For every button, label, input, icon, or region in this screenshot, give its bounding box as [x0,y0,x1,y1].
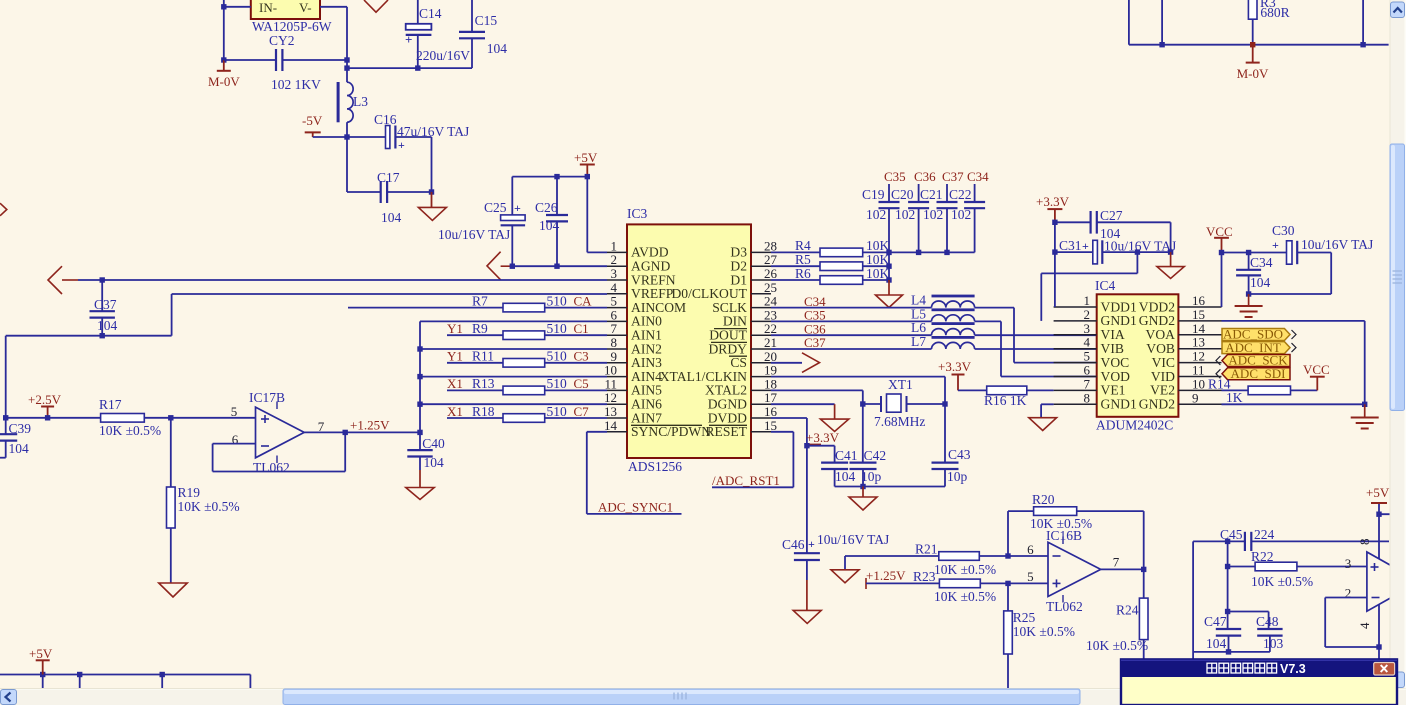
svg-text:12: 12 [1192,349,1205,364]
svg-text:R17: R17 [99,397,122,412]
svg-text:6: 6 [232,432,239,447]
svg-text:19: 19 [764,363,777,378]
svg-text:102: 102 [951,207,971,222]
svg-text:L4: L4 [911,293,926,308]
svg-text:R6: R6 [795,266,811,281]
svg-text:Y1: Y1 [447,321,463,336]
svg-text:R23: R23 [913,569,936,584]
svg-text:5: 5 [611,294,618,309]
svg-text:GND2: GND2 [1139,397,1175,412]
svg-text:IC16B: IC16B [1046,528,1082,543]
svg-text:+3.3V: +3.3V [1036,194,1070,209]
svg-text:CS: CS [730,355,747,370]
svg-text:ADUM2402C: ADUM2402C [1096,418,1173,433]
svg-text:R5: R5 [795,252,811,267]
svg-text:104: 104 [97,318,118,333]
svg-text:C15: C15 [475,13,498,28]
svg-text:4: 4 [1357,622,1372,629]
svg-text:C37: C37 [942,169,964,184]
svg-text:C35: C35 [884,169,906,184]
svg-text:C36: C36 [804,321,826,336]
svg-text:RESET: RESET [705,424,747,439]
svg-text:VDD1: VDD1 [1101,299,1137,314]
svg-text:10K ±0.5%: 10K ±0.5% [934,589,996,604]
svg-text:6: 6 [611,307,618,322]
svg-text:7.68MHz: 7.68MHz [874,414,925,429]
svg-text:8: 8 [1084,390,1091,405]
svg-text:R22: R22 [1251,549,1274,564]
svg-text:C19: C19 [862,187,885,202]
svg-text:10p: 10p [947,469,968,484]
svg-text:12: 12 [604,390,617,405]
svg-text:X1: X1 [447,404,463,419]
svg-text:DVDD: DVDD [708,410,747,425]
svg-text:16: 16 [1192,293,1206,308]
svg-text:XTAL1/CLKIN: XTAL1/CLKIN [660,369,747,384]
svg-text:L3: L3 [353,94,368,109]
svg-text:10u/16V TAJ: 10u/16V TAJ [1301,237,1373,252]
svg-text:104: 104 [381,210,402,225]
svg-text:C31: C31 [1059,238,1082,253]
svg-text:VE2: VE2 [1150,383,1175,398]
svg-text:DRDY: DRDY [708,341,747,356]
svg-text:6: 6 [1027,542,1034,557]
svg-text:M-0V: M-0V [1237,66,1269,81]
svg-text:10K: 10K [866,238,890,253]
svg-text:5: 5 [1027,569,1034,584]
svg-text:22: 22 [764,321,777,336]
svg-text:C34: C34 [1250,255,1273,270]
svg-text:104: 104 [1206,636,1227,651]
svg-text:15: 15 [764,418,777,433]
svg-text:M-0V: M-0V [208,74,240,89]
svg-text:510: 510 [547,349,568,364]
svg-text:28: 28 [764,238,777,253]
svg-text:C27: C27 [1100,208,1123,223]
svg-text:R21: R21 [915,542,938,557]
svg-text:3: 3 [611,266,618,281]
svg-text:XT1: XT1 [888,377,913,392]
svg-text:/ADC_RST1: /ADC_RST1 [712,473,780,488]
svg-text:C1: C1 [574,321,589,336]
svg-text:14: 14 [604,418,618,433]
svg-text:VOA: VOA [1146,327,1176,342]
svg-text:D2: D2 [730,259,747,274]
svg-text:VCC: VCC [1303,362,1330,377]
svg-text:104: 104 [1250,275,1271,290]
svg-text:7: 7 [1084,376,1091,391]
svg-text:10u/16V TAJ: 10u/16V TAJ [817,532,889,547]
svg-text:VID: VID [1151,369,1175,384]
svg-text:GND1: GND1 [1101,313,1137,328]
svg-text:IC17B: IC17B [249,390,285,405]
svg-text:R20: R20 [1032,492,1055,507]
svg-text:+: + [398,138,405,152]
svg-text:10K ±0.5%: 10K ±0.5% [1086,638,1148,653]
svg-text:510: 510 [547,404,568,419]
svg-text:+5V: +5V [1366,485,1390,500]
svg-text:C16: C16 [374,112,397,127]
svg-text:+1.25V: +1.25V [350,418,390,433]
svg-text:10K ±0.5%: 10K ±0.5% [1013,624,1075,639]
svg-text:10K ±0.5%: 10K ±0.5% [99,423,161,438]
svg-text:680R: 680R [1260,5,1289,20]
svg-text:+3.3V: +3.3V [938,359,972,374]
svg-text:4: 4 [611,280,618,295]
svg-text:1K: 1K [1226,390,1243,405]
svg-text:2: 2 [1084,307,1091,322]
svg-text:10: 10 [604,363,617,378]
svg-text:102: 102 [923,207,943,222]
svg-text:C34: C34 [804,294,826,309]
svg-text:10u/16V TAJ: 10u/16V TAJ [438,227,510,242]
svg-text:DOUT: DOUT [709,328,747,343]
svg-text:220u/16V: 220u/16V [416,48,470,63]
svg-text:14: 14 [1192,321,1206,336]
svg-text:XTAL2: XTAL2 [705,383,747,398]
svg-text:7: 7 [611,321,618,336]
svg-text:VCC: VCC [1206,224,1233,239]
svg-text:17: 17 [764,390,778,405]
svg-text:C30: C30 [1272,223,1295,238]
svg-text:AINCOM: AINCOM [631,300,686,315]
svg-text:2: 2 [611,252,618,267]
svg-text:AIN5: AIN5 [631,383,662,398]
svg-text:GND1: GND1 [1101,397,1137,412]
svg-text:+5V: +5V [574,150,598,165]
svg-text:C40: C40 [422,436,445,451]
svg-text:AIN7: AIN7 [631,410,662,425]
svg-text:R25: R25 [1013,610,1036,625]
svg-text:IN-: IN- [259,0,277,15]
svg-text:C47: C47 [1204,614,1227,629]
svg-text:C17: C17 [377,170,400,185]
svg-text:510: 510 [547,293,568,308]
svg-text:L6: L6 [911,320,926,335]
svg-text:IC4: IC4 [1095,278,1116,293]
svg-text:R9: R9 [472,321,488,336]
svg-text:104: 104 [835,469,856,484]
svg-text:ADC_SDI: ADC_SDI [1231,366,1286,381]
svg-text:TL062: TL062 [253,460,290,475]
svg-text:+: + [808,537,815,551]
svg-text:103: 103 [1263,636,1284,651]
svg-text:25: 25 [764,280,777,295]
svg-text:C3: C3 [574,349,589,364]
svg-text:5: 5 [1084,349,1091,364]
svg-text:18: 18 [764,376,777,391]
svg-text:AIN2: AIN2 [631,341,662,356]
svg-text:DIN: DIN [723,314,747,329]
svg-text:C42: C42 [864,448,887,463]
svg-text:+: + [1272,238,1279,252]
svg-text:SCLK: SCLK [712,300,747,315]
svg-text:R19: R19 [178,485,201,500]
svg-text:X1: X1 [447,376,463,391]
svg-text:C43: C43 [948,447,971,462]
svg-text:10K: 10K [866,252,890,267]
svg-text:VE1: VE1 [1101,383,1126,398]
svg-text:7: 7 [1113,555,1120,570]
svg-text:102 1KV: 102 1KV [271,77,321,92]
svg-text:5: 5 [231,404,238,419]
svg-text:10K: 10K [866,266,890,281]
svg-text:104: 104 [539,218,560,233]
svg-text:+2.5V: +2.5V [28,392,62,407]
svg-text:C7: C7 [574,404,590,419]
svg-text:1: 1 [611,238,618,253]
svg-text:L5: L5 [911,306,926,321]
svg-text:R4: R4 [795,238,811,253]
svg-text:C25: C25 [484,200,507,215]
svg-text:+3.3V: +3.3V [806,430,840,445]
svg-text:102: 102 [866,207,886,222]
svg-text:AVDD: AVDD [631,245,669,260]
svg-text:C14: C14 [419,6,442,21]
svg-text:VDD2: VDD2 [1139,299,1175,314]
svg-text:3: 3 [1084,321,1091,336]
svg-text:C39: C39 [9,421,32,436]
svg-text:R13: R13 [472,376,495,391]
svg-text:C5: C5 [574,376,589,391]
svg-text:10K ±0.5%: 10K ±0.5% [178,499,240,514]
svg-text:C48: C48 [1256,614,1279,629]
svg-text:AGND: AGND [631,259,670,274]
svg-text:10u/16V TAJ: 10u/16V TAJ [1104,239,1176,254]
svg-text:R24: R24 [1116,603,1139,618]
svg-text:C35: C35 [804,308,826,323]
svg-text:+: + [514,201,521,215]
svg-text:11: 11 [1192,363,1205,378]
svg-text:4: 4 [1084,335,1091,350]
svg-text:R11: R11 [472,349,494,364]
svg-text:224: 224 [1254,527,1275,542]
svg-text:104: 104 [424,455,445,470]
svg-text:AIN0: AIN0 [631,314,662,329]
svg-text:9: 9 [611,349,618,364]
svg-text:15: 15 [1192,307,1205,322]
svg-text:DGND: DGND [708,397,747,412]
svg-text:24: 24 [764,294,778,309]
svg-text:TL062: TL062 [1046,599,1083,614]
svg-text:16: 16 [764,404,778,419]
svg-text:VOC: VOC [1101,355,1130,370]
svg-text:27: 27 [764,252,778,267]
svg-text:R14: R14 [1208,377,1231,392]
svg-text:10p: 10p [861,469,882,484]
svg-text:1: 1 [1084,293,1091,308]
svg-text:V7.3: V7.3 [1280,662,1306,676]
svg-text:C37: C37 [804,335,826,350]
svg-text:C20: C20 [891,187,914,202]
svg-text:CY2: CY2 [269,33,295,48]
svg-text:VIA: VIA [1101,327,1125,342]
svg-text:IC3: IC3 [627,206,648,221]
svg-text:Y1: Y1 [447,349,463,364]
svg-text:21: 21 [764,335,777,350]
svg-text:47u/16V TAJ: 47u/16V TAJ [397,124,469,139]
svg-text:R18: R18 [472,404,495,419]
svg-text:GND2: GND2 [1139,313,1175,328]
svg-text:510: 510 [547,376,568,391]
svg-text:13: 13 [1192,335,1205,350]
svg-text:6: 6 [1084,363,1091,378]
svg-text:C21: C21 [920,187,943,202]
svg-text:C41: C41 [835,448,858,463]
svg-text:VREFN: VREFN [631,272,676,287]
svg-text:26: 26 [764,266,778,281]
svg-text:-5V: -5V [302,113,323,128]
svg-text:VOB: VOB [1146,341,1175,356]
svg-text:D3: D3 [730,245,747,260]
svg-text:3: 3 [1345,556,1352,571]
svg-text:20: 20 [764,349,777,364]
svg-text:L7: L7 [911,334,926,349]
svg-text:SYNC/PDWN: SYNC/PDWN [631,424,711,439]
svg-text:C26: C26 [535,200,558,215]
svg-text:R16 1K: R16 1K [984,393,1027,408]
svg-text:ADC_SYNC1: ADC_SYNC1 [598,500,673,515]
svg-text:+1.25V: +1.25V [866,568,906,583]
svg-text:VREFP: VREFP [631,286,674,301]
svg-text:+5V: +5V [29,646,53,661]
svg-text:WA1205P-6W: WA1205P-6W [252,19,332,34]
svg-text:+: + [405,32,412,47]
svg-text:C34: C34 [967,169,989,184]
svg-text:C45: C45 [1220,527,1243,542]
svg-text:8: 8 [1357,539,1372,546]
svg-text:510: 510 [547,321,568,336]
svg-text:C22: C22 [949,187,972,202]
svg-text:C46: C46 [782,537,805,552]
svg-text:VIC: VIC [1152,355,1175,370]
svg-text:104: 104 [9,441,30,456]
svg-text:8: 8 [611,335,618,350]
svg-text:R7: R7 [472,293,488,308]
svg-text:9: 9 [1192,390,1199,405]
svg-text:+: + [1082,239,1089,253]
svg-text:10K ±0.5%: 10K ±0.5% [934,562,996,577]
svg-text:AIN6: AIN6 [631,397,662,412]
svg-text:13: 13 [604,404,617,419]
svg-text:104: 104 [487,41,508,56]
svg-text:AIN3: AIN3 [631,355,662,370]
svg-text:VOD: VOD [1101,369,1131,384]
svg-text:10K ±0.5%: 10K ±0.5% [1251,574,1313,589]
svg-text:ADS1256: ADS1256 [628,459,682,474]
svg-text:C37: C37 [94,297,117,312]
svg-text:102: 102 [895,207,915,222]
svg-text:CA: CA [574,293,593,308]
svg-text:AIN4: AIN4 [631,369,662,384]
svg-text:C36: C36 [914,169,936,184]
svg-text:23: 23 [764,307,777,322]
svg-text:D1: D1 [730,272,747,287]
svg-text:10: 10 [1192,376,1205,391]
svg-text:V-: V- [299,0,312,15]
svg-text:11: 11 [604,376,617,391]
svg-text:AIN1: AIN1 [631,328,662,343]
svg-text:VIB: VIB [1101,341,1124,356]
svg-text:D0/CLKOUT: D0/CLKOUT [671,286,747,301]
